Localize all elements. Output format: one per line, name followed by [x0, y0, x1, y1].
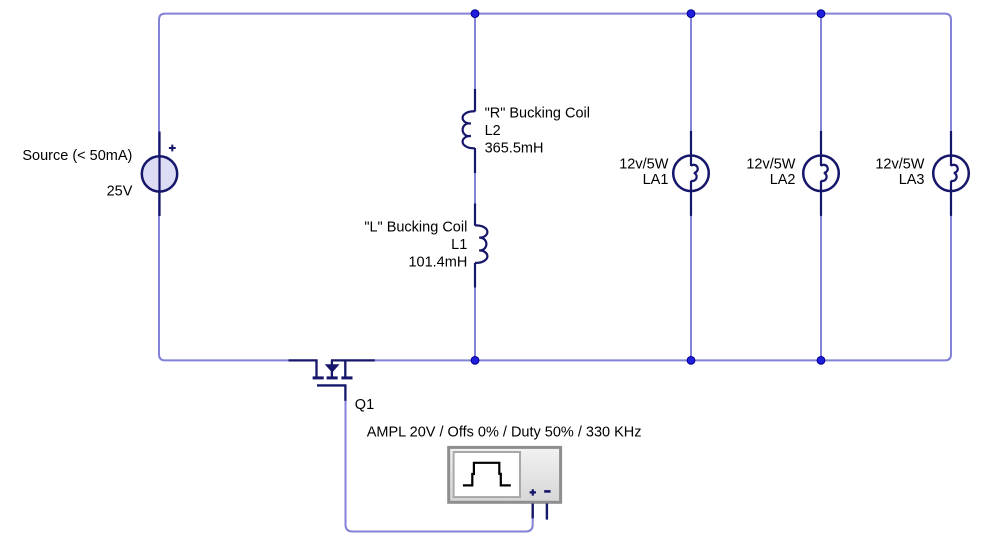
svg-text:12v/5W: 12v/5W: [619, 156, 668, 172]
svg-text:101.4mH: 101.4mH: [408, 254, 467, 270]
svg-text:Source (< 50mA): Source (< 50mA): [22, 148, 132, 164]
svg-text:LA2: LA2: [770, 172, 796, 188]
svg-text:"R" Bucking Coil: "R" Bucking Coil: [485, 105, 590, 121]
svg-text:Q1: Q1: [355, 397, 374, 413]
svg-text:L2: L2: [485, 123, 501, 139]
svg-text:12v/5W: 12v/5W: [746, 156, 795, 172]
svg-text:LA1: LA1: [643, 172, 669, 188]
svg-text:12v/5W: 12v/5W: [875, 156, 924, 172]
svg-text:L1: L1: [451, 237, 467, 253]
svg-text:LA3: LA3: [899, 172, 925, 188]
svg-text:AMPL 20V / Offs 0% / Duty 50%: AMPL 20V / Offs 0% / Duty 50% / 330 KHz: [367, 424, 642, 440]
svg-text:25V: 25V: [107, 183, 133, 199]
svg-text:365.5mH: 365.5mH: [485, 140, 544, 156]
svg-text:"L" Bucking Coil: "L" Bucking Coil: [364, 220, 467, 236]
